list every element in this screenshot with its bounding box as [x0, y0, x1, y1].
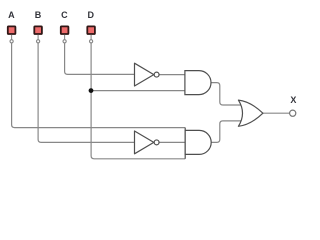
- input switch B (red square): [34, 26, 42, 34]
- input switch C (red square): [61, 26, 69, 34]
- wire NOT1 output to AND1 upper input: [159, 74, 185, 76]
- svg-text:A: A: [8, 10, 15, 20]
- input switch A (red square): [8, 26, 16, 34]
- NOT2 bubble: [154, 140, 159, 145]
- junction dot on D: [89, 88, 94, 93]
- pin stub A: [11, 35, 13, 40]
- input switch D (red square): [87, 26, 95, 34]
- wire AND1 output right down to OR upper input: [211, 83, 243, 105]
- pin stub D: [90, 35, 92, 40]
- pin stub C: [64, 35, 66, 40]
- wire B down then right to NOT2 input: [38, 43, 135, 142]
- AND gate U4 (bottom) body: [185, 130, 211, 154]
- AND gate U4 (bottom, 3-input) input spine: [184, 128, 186, 159]
- svg-text:D: D: [88, 10, 95, 20]
- svg-text:C: C: [61, 10, 68, 20]
- output terminal circle X: [290, 110, 296, 116]
- wire A down then right to AND2 spine: [12, 43, 186, 127]
- pin stub B: [37, 35, 39, 40]
- svg-text:B: B: [35, 10, 42, 20]
- NOT gate U1 (inverter, top): [135, 63, 154, 86]
- wire D branch to AND1 lower input: [91, 90, 185, 92]
- wire OR output to terminal X: [263, 112, 290, 114]
- NOT1 bubble: [154, 72, 159, 77]
- pin circle D: [90, 40, 93, 43]
- NOT gate U2 (inverter, bottom): [135, 131, 154, 154]
- wire C down then right to NOT1 input: [65, 43, 135, 74]
- pin circle A: [10, 40, 13, 43]
- pin circle B: [37, 40, 40, 43]
- AND gate U3 (top): [185, 71, 211, 95]
- svg-text:X: X: [290, 95, 296, 105]
- OR gate U5: [238, 100, 263, 126]
- pin circle C: [63, 40, 66, 43]
- wire D down then right to AND2 spine: [91, 43, 185, 159]
- wire NOT2 output to AND2 middle input: [159, 141, 185, 143]
- wire AND2 output right up to OR lower input: [211, 121, 243, 142]
